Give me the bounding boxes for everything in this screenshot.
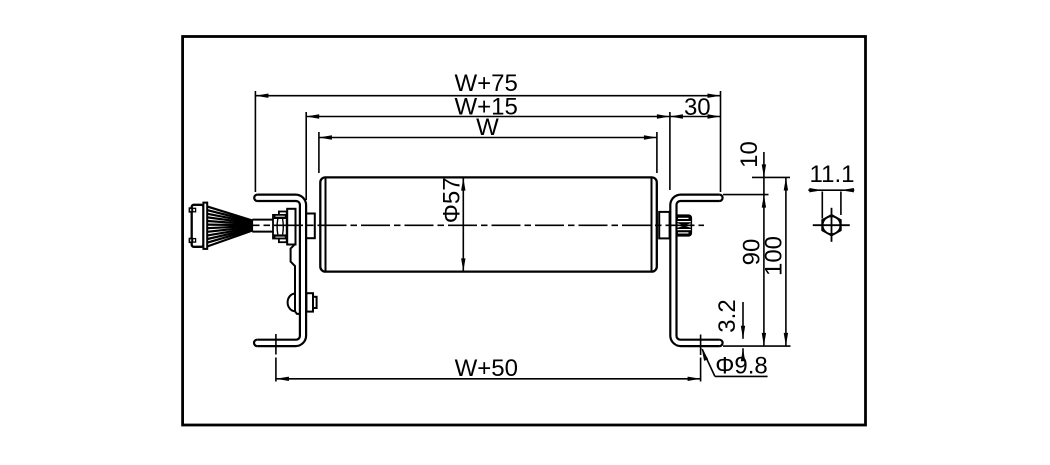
right mounting hole tick: [700, 335, 702, 356]
wire fan: [208, 207, 253, 247]
right bracket inner contour: [677, 201, 720, 340]
right bearing housing: [659, 212, 669, 239]
roller top extension line: [752, 176, 790, 178]
tube right cap line: [651, 179, 653, 271]
hex shaft end view hexagon: [822, 215, 841, 236]
right bracket top flange end cap: [719, 195, 722, 201]
svg-text:Φ9.8: Φ9.8: [715, 353, 768, 380]
left mounting hole tick: [275, 334, 277, 355]
connector notch bottom: [189, 239, 192, 243]
svg-text:100: 100: [761, 236, 788, 276]
bolt nut washer: [313, 297, 317, 308]
connector pin top: [193, 208, 196, 212]
hex nut (shaft): [273, 215, 287, 239]
right bracket bottom flange end cap: [719, 340, 722, 346]
roller tube: [320, 177, 657, 271]
flange top extension line: [723, 194, 769, 196]
hex spring shaft block: [677, 215, 692, 236]
svg-text:W+50: W+50: [455, 355, 518, 382]
left bearing housing: [306, 214, 315, 239]
shaft washer sleeve: [279, 212, 287, 243]
hex detail centerline vertical: [831, 208, 833, 242]
svg-text:Φ57: Φ57: [439, 177, 466, 223]
dimension 10 and 90: [763, 152, 765, 346]
svg-text:30: 30: [684, 94, 711, 121]
label Phi9.8 with leader: [715, 375, 768, 377]
connector body: [192, 205, 204, 247]
left bracket top flange end cap: [254, 195, 257, 201]
connector notch top: [189, 208, 192, 212]
dimension W+75: [254, 91, 256, 192]
flange bottom extension line: [723, 345, 791, 347]
dimension W+15 and 30: [305, 112, 307, 200]
cable shaft tube: [252, 219, 273, 221]
dimension W+50: [275, 358, 277, 382]
svg-text:10: 10: [736, 141, 763, 168]
bolt dome head: [288, 294, 295, 312]
dimension 100: [785, 178, 787, 346]
left bracket bottom flange end cap: [254, 340, 257, 346]
fixing tab with bump and chamfer: [291, 244, 300, 314]
connector flange: [203, 203, 207, 249]
dimension Phi57: [462, 178, 464, 272]
bolt nut: [306, 293, 313, 311]
left bracket outer contour: [257, 195, 306, 347]
hex detail centerline horizontal: [813, 224, 850, 226]
border frame: [183, 37, 866, 426]
tube left cap line: [325, 179, 327, 271]
svg-text:W: W: [476, 114, 499, 141]
dimension 11.1 (hex detail): [808, 189, 854, 191]
hex shaft end view circle: [823, 216, 841, 234]
svg-text:11.1: 11.1: [810, 161, 855, 188]
dimension W: [318, 132, 320, 173]
dimension 3.2: [742, 302, 744, 339]
connector pin bottom: [193, 239, 196, 243]
right bracket outer contour: [670, 195, 719, 347]
centerline (roller axis): [253, 224, 705, 226]
fixing plate (wide part): [287, 209, 295, 245]
left bracket inner contour: [257, 201, 300, 340]
svg-text:3.2: 3.2: [714, 299, 741, 332]
